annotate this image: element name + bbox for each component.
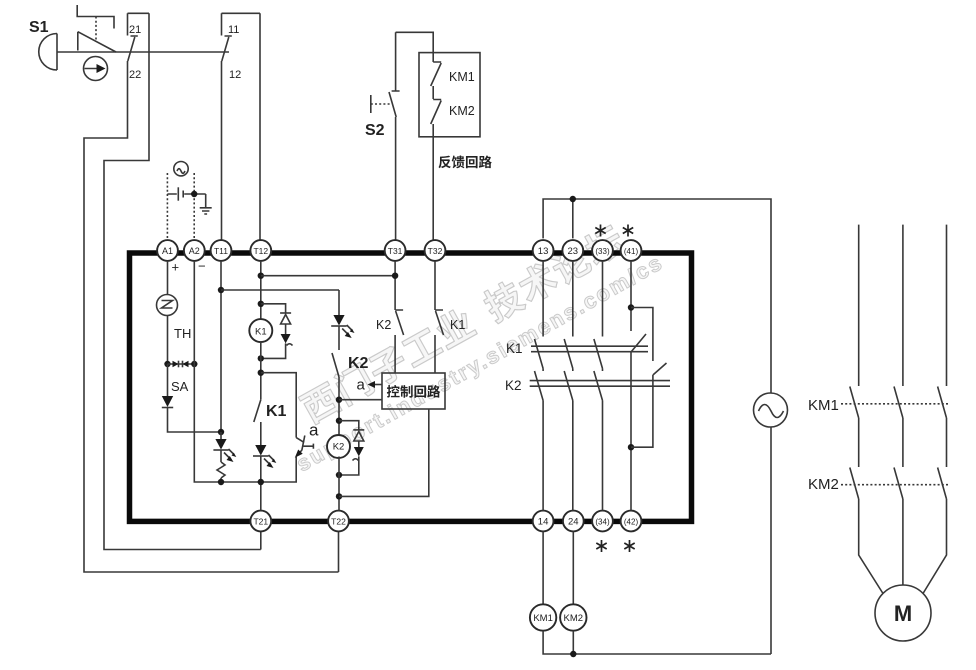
contactor KM1 linkage bbox=[808, 397, 950, 414]
svg-text:11: 11 bbox=[228, 24, 239, 36]
LED indicator on K1 column bbox=[253, 445, 276, 468]
node T12 branch to T31 bbox=[258, 273, 264, 279]
wire 21 side down to jog bbox=[84, 61, 339, 572]
svg-text:(41): (41) bbox=[624, 247, 639, 256]
dotted supply symbol circle bbox=[174, 162, 188, 176]
safety contact column 41-42 bbox=[628, 261, 646, 511]
wire K2 column top bbox=[338, 290, 340, 315]
svg-text:S2: S2 bbox=[365, 122, 385, 139]
wire S2 to T31 bbox=[395, 117, 397, 240]
contact K1 NO bbox=[254, 400, 287, 445]
svg-text:K1: K1 bbox=[506, 341, 523, 356]
svg-text:KM1: KM1 bbox=[533, 613, 553, 624]
wire A2 column down bbox=[194, 261, 260, 482]
battery cell bbox=[167, 187, 205, 200]
wire 22 side down to jog bbox=[104, 13, 261, 549]
node K2 diode branch top bbox=[336, 418, 342, 424]
svg-text:24: 24 bbox=[568, 517, 579, 528]
svg-text:S1: S1 bbox=[29, 19, 49, 36]
linkage bars K2 row bbox=[505, 378, 670, 393]
label feedback loop bbox=[439, 156, 492, 169]
wire feedback box to T32 bbox=[432, 137, 434, 240]
contact K1 on T32 column bbox=[435, 261, 465, 373]
node K2 control return bbox=[336, 493, 342, 499]
wire K2 column bottom bbox=[338, 457, 340, 511]
node T11-diode junction bbox=[218, 429, 224, 435]
thermal element TH bbox=[157, 295, 192, 342]
svg-text:(33): (33) bbox=[595, 247, 610, 256]
phase line L1 bbox=[850, 225, 883, 594]
contactor KM2 linkage bbox=[808, 476, 950, 493]
safety contact column 13-14 bbox=[535, 261, 544, 511]
wire TH to SA node bbox=[167, 316, 169, 365]
wire T11 column bbox=[220, 261, 222, 432]
motor M bbox=[875, 585, 931, 641]
wire bottom return rail bbox=[543, 631, 771, 654]
wire AC source bottom bbox=[770, 427, 772, 654]
svg-text:K1: K1 bbox=[255, 326, 267, 337]
control arrow a bbox=[357, 377, 383, 394]
node K1 coil top bbox=[258, 301, 264, 307]
node K2 control junction bbox=[336, 397, 342, 403]
wire 14 to KM1 coil bbox=[542, 531, 544, 604]
node A1-SA bbox=[164, 361, 170, 367]
AC source G bbox=[754, 393, 788, 427]
node K1 coil bottom bbox=[258, 355, 264, 361]
contact K2 NO bbox=[332, 326, 369, 377]
svg-text:KM1: KM1 bbox=[808, 397, 839, 414]
terminal T32 bbox=[425, 240, 446, 261]
linkage bars K1 row bbox=[506, 341, 648, 356]
terminal T31 bbox=[385, 240, 406, 261]
dotted wire A1 up bbox=[166, 173, 168, 240]
svg-text:T22: T22 bbox=[331, 517, 346, 527]
terminal A1 bbox=[157, 240, 178, 261]
diode pair parallel to K1 coil bbox=[261, 304, 293, 359]
node T31-T12 junction bbox=[392, 273, 398, 279]
S1 twist-release symbol bbox=[84, 57, 108, 81]
svg-text:K1: K1 bbox=[450, 318, 465, 332]
terminal T11 bbox=[211, 240, 232, 261]
pushbutton S2 bbox=[365, 32, 400, 139]
contact S1 11-12 bbox=[222, 13, 261, 81]
svg-text:12: 12 bbox=[229, 69, 241, 81]
wire S2 top to feedback box bbox=[396, 32, 434, 52]
svg-text:KM2: KM2 bbox=[449, 104, 475, 118]
asterisk below terminal 34 bbox=[596, 540, 606, 552]
node K1 bottom junction bbox=[258, 479, 264, 485]
watermark line 1 bbox=[297, 221, 628, 426]
dotted wire A2 up bbox=[193, 173, 195, 240]
feedback circuit box bbox=[419, 53, 480, 137]
wire T12 to T31 column bbox=[261, 275, 395, 277]
wire A1 column bbox=[167, 261, 169, 295]
svg-text:M: M bbox=[894, 601, 912, 626]
node junction on top rail bbox=[570, 196, 576, 202]
terminal 24 bbox=[563, 511, 584, 532]
diode below SA bbox=[162, 364, 173, 408]
phase line L3 bbox=[923, 225, 947, 594]
wire top supply rail bbox=[543, 199, 771, 393]
svg-text:−: − bbox=[198, 259, 206, 274]
watermark line 2 bbox=[292, 249, 668, 476]
svg-text:A2: A2 bbox=[189, 246, 200, 256]
wire 24 to KM2 coil bbox=[572, 531, 574, 604]
terminal 33 bbox=[592, 240, 613, 261]
svg-text:A1: A1 bbox=[162, 246, 173, 256]
svg-text:T12: T12 bbox=[253, 246, 268, 256]
node SA-A2 bbox=[191, 361, 197, 367]
terminal T12 bbox=[250, 240, 271, 261]
transistor a branch bbox=[261, 373, 319, 482]
svg-text:K2: K2 bbox=[333, 442, 345, 453]
wire K1 coil bottom segment bbox=[260, 341, 262, 400]
terminal 14 bbox=[533, 511, 554, 532]
contactor coil KM1 bbox=[530, 604, 556, 630]
svg-text:TH: TH bbox=[174, 326, 191, 341]
svg-text:T32: T32 bbox=[428, 246, 443, 256]
terminal 13 bbox=[533, 240, 554, 261]
asterisk above terminal 41 bbox=[623, 225, 633, 237]
contact KM2 NC in feedback box bbox=[431, 100, 475, 137]
svg-text:KM2: KM2 bbox=[564, 613, 584, 624]
svg-text:14: 14 bbox=[538, 517, 549, 528]
svg-text:a: a bbox=[357, 377, 366, 394]
svg-text:T11: T11 bbox=[214, 246, 228, 256]
node T11 branch bbox=[218, 287, 224, 293]
svg-text:K1: K1 bbox=[266, 403, 287, 420]
svg-text:T21: T21 bbox=[253, 517, 268, 527]
svg-text:13: 13 bbox=[538, 246, 549, 257]
contact S1 21-22 bbox=[128, 13, 150, 81]
contact KM1 NC in feedback box bbox=[431, 53, 475, 99]
terminal 41 bbox=[621, 240, 642, 261]
ground bbox=[200, 194, 212, 214]
terminal 23 bbox=[562, 240, 583, 261]
svg-text:SA: SA bbox=[171, 379, 189, 394]
terminal T21 bbox=[250, 511, 271, 532]
svg-text:K2: K2 bbox=[348, 355, 369, 372]
suppressor SA element bbox=[168, 361, 195, 394]
wire T11 to K2 column bbox=[221, 289, 339, 291]
svg-text:T31: T31 bbox=[388, 246, 403, 256]
LED indicator on T11 column bbox=[213, 432, 236, 462]
pushbutton S1 mushroom head bbox=[29, 19, 57, 70]
asterisk above terminal 33 bbox=[595, 225, 605, 237]
terminal 34 bbox=[592, 511, 613, 532]
relay coil K1 bbox=[249, 319, 272, 342]
wire K2 contact to coil bbox=[338, 377, 340, 435]
node T11 bottom bbox=[218, 479, 224, 485]
svg-text:a: a bbox=[309, 421, 319, 440]
node bottom rail junction bbox=[570, 651, 576, 657]
bypass loop on 41-42 bbox=[631, 308, 667, 448]
svg-text:K2: K2 bbox=[376, 318, 391, 332]
wire 12 to T12 bbox=[259, 13, 261, 240]
asterisk below terminal 42 bbox=[624, 540, 634, 552]
svg-text:21: 21 bbox=[129, 24, 141, 36]
svg-text:23: 23 bbox=[568, 246, 579, 257]
wire control box return bbox=[339, 409, 429, 496]
terminal T22 bbox=[328, 511, 349, 532]
svg-text:KM1: KM1 bbox=[449, 70, 475, 84]
svg-text:(34): (34) bbox=[595, 518, 610, 527]
wire 11 to T11 bbox=[221, 61, 223, 240]
node battery-A2 junction bbox=[191, 191, 197, 197]
S1 mechanical linkage bracket bbox=[77, 5, 116, 52]
relay main box bbox=[130, 253, 692, 521]
phase line L2 bbox=[894, 225, 903, 585]
contact K2 on T31 column bbox=[376, 261, 404, 373]
contactor coil KM2 bbox=[560, 604, 586, 630]
wire K2 to control box bbox=[339, 399, 382, 401]
svg-text:K2: K2 bbox=[505, 378, 522, 393]
LED indicator on K2 column bbox=[331, 315, 354, 338]
terminal 42 bbox=[621, 511, 642, 532]
svg-text:(42): (42) bbox=[624, 518, 639, 527]
wire K1 column bottom bbox=[260, 456, 262, 511]
svg-text:22: 22 bbox=[129, 69, 141, 81]
wire T12 column top bbox=[260, 261, 262, 320]
svg-text:+: + bbox=[172, 260, 180, 275]
node transistor branch bbox=[258, 370, 264, 376]
terminal A2 bbox=[184, 240, 205, 261]
node K2 coil bottom bbox=[336, 472, 342, 478]
svg-text:KM2: KM2 bbox=[808, 476, 839, 493]
wire diode to T11 column bbox=[168, 408, 222, 433]
varistor squiggle on T11 column bbox=[217, 450, 225, 482]
safety contact column 33-34 bbox=[594, 261, 603, 511]
diode pair parallel to K2 coil bbox=[339, 421, 364, 475]
control circuit box bbox=[382, 373, 445, 409]
relay coil K2 bbox=[327, 435, 350, 458]
S1 actuator line bbox=[57, 51, 229, 53]
safety contact column 23-24 bbox=[564, 261, 573, 511]
